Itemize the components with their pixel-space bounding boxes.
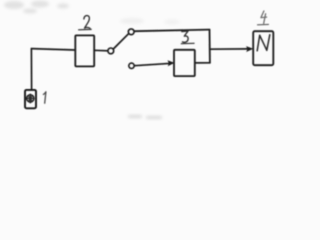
label 2 bbox=[84, 16, 90, 29]
wire: upper path from switch to right corner bbox=[134, 30, 209, 32]
switch blade to upper throw bbox=[113, 34, 128, 49]
switch upper throw contact circle bbox=[128, 29, 134, 35]
wire: lower path from switch to block 3 bbox=[134, 63, 169, 65]
wire: vertical riser from block 1 up to horizontal feed bbox=[30, 49, 32, 90]
block 2 box bbox=[75, 35, 94, 66]
arrowhead into block 4 bbox=[246, 46, 253, 52]
wire: horizontal feed into block 2 bbox=[31, 49, 75, 50]
wire: block 3 output to junction bbox=[195, 62, 210, 64]
wire: junction to block 4 bbox=[210, 48, 248, 50]
label 4 bbox=[261, 11, 267, 23]
label 1 bbox=[43, 92, 46, 103]
wire: vertical junction segment bbox=[209, 30, 211, 63]
arrowhead into block 3 bbox=[168, 60, 175, 66]
background paper noise top-left bbox=[4, 1, 180, 25]
switch common contact circle bbox=[108, 48, 114, 54]
label 3 bbox=[182, 31, 188, 42]
background smudge bottom-center bbox=[128, 115, 162, 119]
block 4 box (recorder) bbox=[253, 31, 273, 65]
wire: block 2 output to switch common bbox=[94, 49, 108, 52]
block 1 box (pickup source) bbox=[25, 90, 36, 108]
N zigzag symbol inside block 4 bbox=[257, 35, 270, 51]
switch lower throw contact circle bbox=[129, 63, 134, 68]
label 4 underline bbox=[258, 23, 269, 25]
pickup symbol inside block 1 bbox=[27, 94, 34, 104]
label 3 underline bbox=[181, 42, 194, 44]
label 2 underline bbox=[79, 28, 92, 30]
block 3 box bbox=[174, 50, 195, 76]
